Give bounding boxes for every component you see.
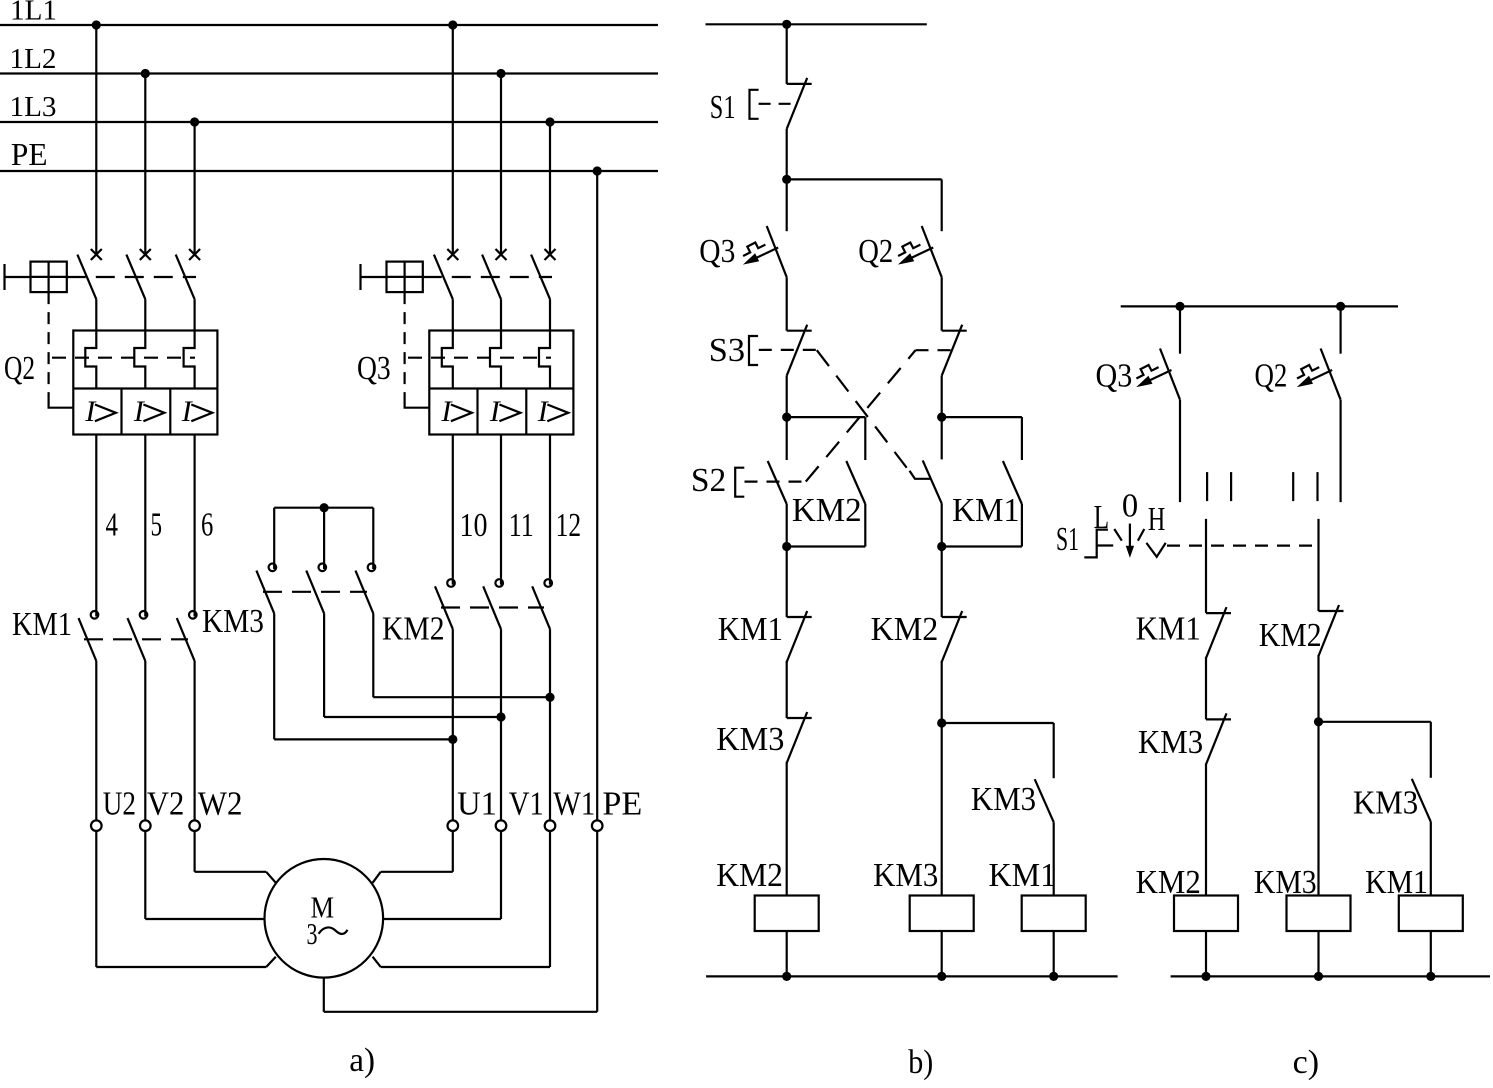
- motor wire U2: [95, 831, 97, 967]
- svg-text:S3: S3: [709, 332, 745, 369]
- breaker pole contact x=550: [545, 249, 556, 260]
- svg-text:U1: U1: [457, 786, 497, 823]
- S1 bracket: [750, 90, 759, 119]
- bus PE: [0, 170, 658, 172]
- svg-text:PE: PE: [11, 136, 48, 172]
- breaker aux Q3 (c): [1160, 349, 1180, 400]
- wire: [786, 129, 788, 180]
- svg-text:S1: S1: [1056, 521, 1079, 558]
- wire: [941, 723, 943, 896]
- coil KM1 (c): [1399, 896, 1463, 932]
- breaker aux Q2 (b): [922, 226, 942, 277]
- wire 1L2 drop to Q2: [144, 74, 146, 255]
- wire: [1053, 931, 1055, 976]
- b node left mid: [782, 413, 791, 422]
- node 1L1-Q3: [448, 20, 457, 29]
- svg-text:W2: W2: [198, 786, 243, 823]
- wire: [941, 376, 943, 417]
- breaker linkage dashed vertical: [404, 292, 406, 400]
- wire: [941, 931, 943, 976]
- b node rail 3: [1049, 972, 1058, 981]
- selector linkage dashed: [1167, 544, 1319, 546]
- c top rail: [1121, 305, 1398, 307]
- contact KM1 NC (c): [1206, 612, 1231, 614]
- svg-text:0: 0: [1122, 488, 1138, 525]
- contact KM1 NC (b): [786, 547, 788, 618]
- wire: [941, 277, 943, 331]
- wire 1L3 drop to Q3: [549, 122, 551, 255]
- svg-text:KM2: KM2: [382, 611, 445, 648]
- svg-text:Q2: Q2: [858, 233, 893, 270]
- breaker overload box: [73, 331, 217, 435]
- c node rail 1: [1201, 972, 1210, 981]
- breaker thermal jog x=195: [184, 331, 195, 389]
- wire: [1205, 519, 1207, 613]
- wires Q2 box to KM1: [95, 435, 97, 611]
- b node left rejoin: [782, 542, 791, 551]
- breaker handle: [3, 264, 5, 290]
- KM3 leg: [372, 508, 374, 563]
- S3 link dashed: [759, 349, 817, 351]
- breaker linkage dashed to poles: [67, 276, 196, 278]
- breaker pole contact x=453: [447, 249, 458, 260]
- contact KM3 NC (b): [786, 661, 788, 718]
- motor wire U1: [452, 831, 454, 872]
- terminal W1: [545, 820, 556, 831]
- svg-text:Q3: Q3: [357, 350, 391, 387]
- wire 1L2 drop to Q3: [500, 74, 502, 255]
- S2 link dashed: [745, 481, 806, 483]
- wire: [941, 179, 943, 231]
- breaker linkage dashed vertical: [47, 292, 49, 400]
- breaker trip dashed line: [408, 357, 551, 359]
- svg-text:KM1: KM1: [12, 606, 72, 643]
- wire: [786, 376, 788, 417]
- S3 bracket: [749, 336, 758, 365]
- node KM3 bar: [320, 503, 329, 512]
- svg-text:KM2: KM2: [1136, 864, 1201, 901]
- contact KM2 NC (c): [1319, 610, 1344, 612]
- svg-text:1L2: 1L2: [10, 43, 57, 75]
- coil KM2 (b): [755, 896, 819, 932]
- svg-text:b): b): [908, 1044, 933, 1081]
- terminal U2: [91, 820, 102, 831]
- wire: [1205, 931, 1207, 976]
- breaker handle: [359, 264, 361, 290]
- coil KM3 (c): [1287, 896, 1351, 932]
- svg-text:S2: S2: [691, 462, 726, 499]
- c node KM3 branch: [1314, 717, 1323, 726]
- wire KM1 coil branch: [942, 722, 1054, 724]
- selector S1 mechanism (c): [1084, 530, 1108, 558]
- motor wire W1: [549, 831, 551, 967]
- svg-text:L: L: [1094, 499, 1110, 536]
- coil KM1 (b): [1022, 896, 1086, 932]
- wire: [1317, 722, 1319, 896]
- svg-text:S1: S1: [710, 89, 736, 126]
- terminal V2: [140, 820, 151, 831]
- svg-text:Q3: Q3: [1096, 358, 1133, 395]
- terminal V1: [496, 820, 507, 831]
- c bottom rail: [1171, 975, 1490, 977]
- breaker pole contact x=501: [496, 249, 507, 260]
- svg-text:KM3: KM3: [1254, 864, 1317, 901]
- svg-text:KM2: KM2: [871, 611, 939, 648]
- S2 bracket: [735, 468, 744, 497]
- wire: [1179, 306, 1181, 353]
- switch S2 contact right: [941, 417, 943, 459]
- c node rail 2: [1314, 972, 1323, 981]
- breaker thermal jog x=96: [85, 331, 96, 389]
- wire: [1339, 400, 1341, 502]
- wire: [1205, 657, 1207, 719]
- coil KM2 (c): [1174, 896, 1238, 932]
- svg-text:12: 12: [556, 507, 582, 544]
- svg-text:KM2: KM2: [716, 857, 783, 894]
- svg-text:V2: V2: [147, 786, 184, 823]
- wire: [1317, 655, 1319, 722]
- node 1L3-Q3: [545, 117, 554, 126]
- wire PE drop: [596, 171, 598, 820]
- svg-text:a): a): [349, 1042, 375, 1079]
- breaker pole contact x=96: [91, 249, 102, 260]
- b top rail: [706, 23, 927, 25]
- breaker aux Q3 (b): [767, 226, 787, 277]
- c node rail 3: [1426, 972, 1435, 981]
- b node rail 1: [782, 972, 791, 981]
- breaker linkage dashed to poles: [423, 276, 552, 278]
- terminal W2: [189, 820, 200, 831]
- svg-text:Q3: Q3: [699, 233, 735, 270]
- KM3 leg: [273, 508, 275, 563]
- node 1L2-Q3: [496, 69, 505, 78]
- svg-text:KM2: KM2: [792, 492, 862, 529]
- svg-text:10: 10: [460, 507, 488, 544]
- wire row KM3-U1: [274, 738, 453, 740]
- node PE: [593, 166, 602, 175]
- wire KM1 coil branch (c): [1319, 721, 1431, 723]
- KM1 linkage dashed: [84, 638, 188, 640]
- svg-text:4: 4: [106, 507, 119, 544]
- wire: [1317, 519, 1319, 611]
- b node KM3 branch: [937, 718, 946, 727]
- switch S3 contact left: [787, 330, 812, 332]
- motor wire V1: [500, 831, 502, 919]
- S1 link dashed: [759, 103, 797, 105]
- breaker thermal jog x=145: [134, 331, 145, 389]
- KM2 auxiliary holding contact: [787, 416, 866, 418]
- breaker pole contact x=195: [189, 249, 200, 260]
- node 1L3-Q2: [190, 117, 199, 126]
- wire: [786, 931, 788, 976]
- c node top right: [1336, 302, 1345, 311]
- svg-text:5: 5: [151, 507, 163, 544]
- svg-text:KM3: KM3: [716, 721, 784, 758]
- switch S1 (b): [787, 83, 812, 85]
- svg-text:KM3: KM3: [971, 781, 1036, 818]
- terminal PE: [592, 820, 603, 831]
- breaker operating mechanism square: [31, 262, 67, 293]
- svg-text:H: H: [1148, 501, 1165, 538]
- contact KM3 NO (c): [1412, 779, 1431, 822]
- wire 1L1 drop to Q2: [95, 25, 97, 255]
- svg-text:PE: PE: [602, 786, 642, 823]
- svg-text:KM1: KM1: [952, 492, 1019, 529]
- svg-text:KM3: KM3: [202, 603, 264, 640]
- contactor KM3 contacts: [273, 563, 275, 570]
- svg-text:KM3: KM3: [1138, 724, 1203, 761]
- svg-text:6: 6: [201, 507, 213, 544]
- svg-text:V1: V1: [509, 786, 544, 823]
- motor M circle: [265, 859, 384, 978]
- svg-text:1L1: 1L1: [10, 0, 57, 27]
- motor wire W2: [194, 831, 196, 872]
- switch S2 contact left: [786, 417, 788, 460]
- svg-text:KM1: KM1: [1136, 611, 1201, 648]
- svg-text:KM3: KM3: [873, 857, 938, 894]
- wire: [1430, 931, 1432, 976]
- KM2 linkage dashed: [441, 606, 544, 608]
- node 1L2-Q2: [141, 69, 150, 78]
- node 1L1-Q2: [92, 20, 101, 29]
- breaker pole contact x=145: [140, 249, 151, 260]
- b node right rejoin: [937, 542, 946, 551]
- svg-text:W1: W1: [553, 786, 595, 823]
- selector S1 contact tips: [1206, 472, 1208, 501]
- b node right mid: [937, 413, 946, 422]
- b bottom rail: [706, 975, 1118, 977]
- contact KM2 NC (b): [941, 547, 943, 618]
- wire row KM3-V1: [324, 716, 501, 718]
- svg-text:KM1: KM1: [718, 611, 783, 648]
- bus 1L1: [0, 24, 658, 26]
- KM1 auxiliary holding contact: [942, 416, 1022, 418]
- breaker aux Q2 (c): [1321, 349, 1341, 400]
- wire: [786, 277, 788, 331]
- contact KM3 NC (c): [1206, 718, 1231, 720]
- motor wire V2: [144, 831, 146, 919]
- contact KM3 NO (b): [1035, 779, 1054, 822]
- breaker thermal jog x=453: [442, 331, 453, 389]
- svg-text:Q2: Q2: [4, 350, 35, 387]
- svg-text:3: 3: [307, 916, 318, 951]
- wire: [1339, 306, 1341, 353]
- wire: [786, 24, 788, 84]
- coil KM3 (b): [910, 896, 974, 932]
- breaker overload box: [429, 331, 573, 435]
- cross linkage dashed S3-to-right: [817, 350, 913, 476]
- contactor KM2 contacts: [452, 578, 454, 585]
- breaker thermal jog x=501: [490, 331, 501, 389]
- terminal U1: [448, 820, 459, 831]
- wire 1L3 drop to Q2: [194, 122, 196, 255]
- wire 1L1 drop to Q3: [452, 25, 454, 255]
- bus 1L2: [0, 72, 658, 74]
- bus 1L3: [0, 121, 658, 123]
- wire: [786, 762, 788, 896]
- motor wire PE: [596, 831, 598, 1012]
- breaker operating mechanism square: [387, 262, 423, 293]
- svg-text:KM2: KM2: [1259, 617, 1322, 654]
- KM3 leg: [323, 508, 325, 563]
- svg-text:1L3: 1L3: [10, 91, 57, 123]
- contactor KM3 bar: [274, 507, 373, 509]
- wire: [1179, 400, 1181, 502]
- breaker thermal jog x=550: [539, 331, 550, 389]
- breaker trip dashed line: [52, 357, 195, 359]
- svg-text:11: 11: [509, 507, 534, 544]
- wire: [941, 661, 943, 723]
- svg-text:KM1: KM1: [989, 857, 1057, 894]
- switch S3 contact right (operated by S2): [942, 330, 967, 332]
- wire row KM3-W1: [373, 696, 550, 698]
- svg-text:Q2: Q2: [1255, 358, 1288, 395]
- c node top left: [1175, 302, 1184, 311]
- KM3 linkage dashed: [263, 591, 367, 593]
- wire: [1205, 763, 1207, 895]
- wire: [786, 179, 788, 231]
- svg-text:U2: U2: [103, 786, 136, 823]
- svg-text:KM1: KM1: [1365, 864, 1428, 901]
- wire: [1317, 931, 1319, 976]
- wire split: [787, 178, 942, 180]
- b node split: [782, 175, 791, 184]
- svg-text:c): c): [1293, 1044, 1320, 1081]
- wires Q3 box to KM2: [452, 435, 454, 579]
- contactor KM1 contacts: [95, 610, 97, 617]
- svg-text:KM3: KM3: [1353, 785, 1418, 822]
- b node top: [782, 20, 791, 29]
- cross linkage dashed S2-to-right: [806, 350, 916, 481]
- b node rail 2: [937, 972, 946, 981]
